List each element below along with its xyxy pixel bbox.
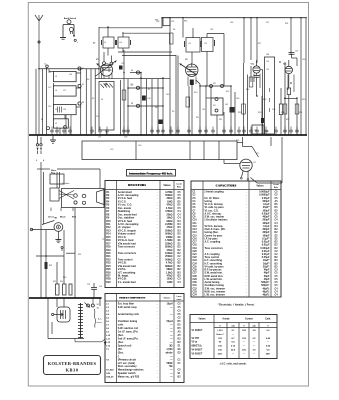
valve V3 6B8G detector/AVC: [244, 60, 265, 135]
IF transformer / volume control box: [265, 54, 283, 135]
svg-text:C10: C10: [193, 220, 198, 222]
svg-text:R21: R21: [106, 256, 111, 258]
svg-text:...: ...: [157, 263, 159, 265]
svg-text:S24-25: S24-25: [106, 376, 114, 379]
svg-text:...: ...: [157, 324, 159, 326]
svg-text:...: ...: [246, 282, 248, 284]
svg-text:...: ...: [157, 282, 159, 284]
capacitor C36 trimmer box: [163, 18, 174, 26]
svg-text:...: ...: [157, 377, 159, 379]
svg-text:...: ...: [157, 366, 159, 368]
svg-text:V3 (a: V3 (a: [192, 342, 198, 344]
svg-text:...: ...: [157, 243, 159, 245]
svg-text:C3: C3: [178, 279, 182, 281]
svg-text:...: ...: [246, 238, 248, 240]
svg-text:R2: R2: [106, 195, 110, 197]
svg-text:C3: C3: [275, 270, 279, 272]
svg-text:230‡: 230‡: [218, 353, 224, 355]
svg-text:E1: E1: [178, 345, 182, 347]
svg-text:...: ...: [246, 288, 248, 290]
svg-text:C4: C4: [275, 219, 279, 222]
wire aerial coil bus: [39, 69, 99, 79]
svg-text:R1: R1: [106, 192, 110, 194]
svg-text:...: ...: [157, 227, 159, 229]
capacitor C44 box: [252, 125, 264, 134]
svg-text:C8: C8: [193, 213, 197, 215]
svg-text:R6: R6: [106, 208, 110, 210]
svg-text:1MΩ: 1MΩ: [167, 281, 172, 284]
svg-text:...: ...: [246, 245, 248, 247]
svg-text:Varies†: Varies†: [216, 334, 224, 336]
svg-text:R25: R25: [106, 269, 111, 271]
svg-text:D2: D2: [275, 229, 279, 231]
svg-text:E3: E3: [275, 235, 279, 237]
svg-text:L5: L5: [106, 318, 109, 320]
svg-text:...: ...: [246, 192, 248, 194]
svg-text:B3: B3: [275, 263, 279, 265]
svg-text:B2: B2: [178, 269, 182, 271]
svg-text:C23: C23: [193, 260, 198, 262]
svg-text:R19: R19: [106, 250, 111, 252]
svg-text:L11: L11: [106, 338, 110, 340]
svg-text:RESISTORS: RESISTORS: [128, 184, 146, 187]
svg-text:...: ...: [246, 210, 248, 212]
svg-text:...: ...: [157, 314, 159, 316]
wire lower earth bus: [29, 297, 102, 299]
wire chassis earth bus: [29, 134, 307, 136]
svg-text:...: ...: [246, 235, 248, 237]
svg-text:...: ...: [157, 208, 159, 210]
model label KOLSTER-BRANDES KB30: [44, 356, 101, 375]
aerial & earth terminals: [36, 135, 42, 154]
svg-text:...: ...: [246, 195, 248, 197]
svg-text:C5: C5: [275, 285, 279, 287]
svg-text:...: ...: [157, 192, 159, 194]
svg-text:...: ...: [157, 247, 159, 249]
valve V2 7B7 IF amplifier: [176, 55, 200, 135]
svg-text:B2: B2: [178, 377, 182, 379]
wire drops from HT bus: [170, 18, 301, 135]
svg-text:L13: L13: [106, 345, 111, 347]
svg-text:...: ...: [246, 254, 248, 256]
IF transformer T-IF1 (L9/L10): [99, 27, 176, 69]
svg-text:...: ...: [157, 269, 159, 271]
output transformer T1 and speaker: [48, 298, 106, 346]
svg-text:C32: C32: [193, 288, 198, 290]
resistor labels R13 R17 R20 R23 R25: [172, 111, 302, 119]
svg-text:R15: R15: [106, 237, 111, 239]
svg-text:V4 6V6GT: V4 6V6GT: [192, 349, 203, 352]
table CAPACITORS: [191, 181, 281, 297]
svg-text:2.7: 2.7: [231, 330, 235, 332]
svg-text:A5: A5: [178, 334, 182, 337]
svg-text:6B8GT (b: 6B8GT (b: [192, 346, 203, 348]
svg-text:R7: R7: [106, 211, 110, 213]
svg-text:D4: D4: [178, 220, 182, 223]
svg-text:D2: D2: [178, 250, 182, 252]
svg-text:...: ...: [246, 260, 248, 262]
svg-text:...: ...: [157, 256, 159, 258]
svg-text:46pF‡: 46pF‡: [262, 294, 270, 297]
svg-text:C2: C2: [178, 256, 182, 258]
footnote AC volts: [220, 363, 247, 366]
svg-text:S23: S23: [106, 373, 111, 375]
svg-text:D5: D5: [275, 207, 279, 209]
ground symbol: [50, 135, 56, 143]
svg-text:...: ...: [246, 285, 248, 287]
svg-text:R12: R12: [106, 227, 111, 229]
table VALVES voltages: [190, 315, 277, 359]
svg-text:195: 195: [218, 338, 222, 340]
svg-text:C9: C9: [193, 217, 197, 219]
svg-text:...: ...: [157, 201, 159, 203]
svg-text:—: —: [243, 346, 246, 348]
svg-text:...: ...: [157, 205, 159, 207]
svg-text:C30: C30: [193, 282, 198, 284]
svg-text:R24: R24: [106, 265, 111, 268]
svg-text:R20: R20: [106, 253, 111, 255]
svg-text:...: ...: [157, 356, 159, 358]
svg-text:C31: C31: [193, 285, 198, 287]
svg-text:Mains sw., g'd R22: Mains sw., g'd R22: [118, 376, 140, 379]
svg-text:C24: C24: [193, 262, 198, 265]
svg-text:0.45: 0.45: [266, 337, 271, 340]
svg-text:C28: C28: [193, 276, 198, 278]
svg-text:Tone correctors: Tone correctors: [118, 252, 137, 255]
svg-text:D2: D2: [178, 342, 182, 344]
svg-text:B2: B2: [178, 266, 182, 268]
svg-text:3.4: 3.4: [252, 329, 256, 332]
svg-text:Refs: Refs: [274, 187, 279, 189]
svg-text:C26: C26: [193, 270, 198, 272]
svg-text:9.2: 9.2: [266, 330, 270, 332]
svg-text:...: ...: [157, 234, 159, 236]
svg-text:R9: R9: [106, 218, 110, 220]
svg-text:D2: D2: [178, 338, 182, 340]
svg-text:C4: C4: [275, 287, 279, 290]
svg-text:...: ...: [246, 223, 248, 225]
svg-text:C7: C7: [193, 210, 197, 212]
table OTHER COMPONENTS: [105, 294, 184, 383]
svg-text:Values: Values: [163, 185, 171, 187]
svg-text:...: ...: [157, 272, 159, 274]
svg-text:C16: C16: [193, 238, 198, 240]
svg-text:C22: C22: [193, 257, 198, 259]
wire right edge drops: [36, 18, 306, 135]
svg-text:...: ...: [157, 338, 159, 340]
svg-text:3.9: 3.9: [252, 350, 256, 352]
svg-text:C4: C4: [178, 210, 182, 213]
valve V1 6K8GT frequency changer: [95, 52, 170, 85]
svg-text:D3: D3: [178, 227, 182, 229]
svg-text:B3: B3: [275, 260, 279, 262]
gram terminals: [30, 228, 64, 298]
svg-text:...: ...: [157, 321, 159, 323]
svg-text:...: ...: [246, 270, 248, 272]
svg-text:0.45: 0.45: [266, 345, 271, 348]
svg-text:D3: D3: [178, 234, 182, 236]
svg-text:D5: D5: [178, 205, 182, 207]
svg-text:C13: C13: [193, 229, 198, 231]
svg-text:R5: R5: [106, 205, 110, 207]
svg-text:C5: C5: [275, 279, 279, 281]
svg-text:...: ...: [157, 218, 159, 220]
svg-text:...: ...: [157, 370, 159, 372]
svg-text:D2: D2: [275, 248, 279, 250]
svg-text:C1: C1: [178, 363, 182, 365]
dropper resistors and C23: [53, 230, 102, 298]
svg-text:C5: C5: [178, 370, 182, 372]
svg-text:R11: R11: [106, 224, 111, 226]
wires V1 anode circuit: [121, 50, 164, 135]
svg-text:E3: E3: [178, 237, 182, 239]
svg-text:E3: E3: [178, 349, 182, 351]
svg-text:C5: C5: [275, 213, 279, 215]
svg-text:R28: R28: [106, 279, 111, 281]
svg-text:} Aerial coupling: } Aerial coupling: [205, 191, 225, 194]
svg-text:—: —: [232, 334, 235, 336]
svg-text:...: ...: [246, 295, 248, 297]
svg-text:L7: L7: [106, 324, 109, 326]
svg-text:C15: C15: [193, 235, 198, 237]
svg-text:R4: R4: [106, 200, 110, 203]
svg-text:C11: C11: [193, 223, 198, 225]
svg-text:CAPACITORS: CAPACITORS: [216, 185, 237, 188]
svg-text:...: ...: [246, 257, 248, 259]
svg-text:Values: Values: [164, 298, 172, 300]
svg-text:...: ...: [157, 307, 159, 309]
svg-text:—: —: [243, 342, 246, 344]
svg-text:A5: A5: [275, 200, 279, 203]
svg-text:...: ...: [157, 304, 159, 306]
svg-text:C21: C21: [193, 254, 198, 256]
svg-text:...: ...: [246, 204, 248, 206]
svg-text:Refs: Refs: [177, 187, 182, 189]
svg-text:C5: C5: [178, 192, 182, 194]
svg-text:245*: 245*: [266, 352, 271, 355]
svg-text:L6: L6: [106, 321, 109, 323]
svg-text:D5: D5: [178, 328, 182, 330]
svg-text:...: ...: [157, 198, 159, 200]
svg-text:...: ...: [157, 211, 159, 213]
svg-text:D5: D5: [178, 321, 182, 323]
svg-text:S1-S22: S1-S22: [106, 370, 114, 372]
svg-text:...: ...: [157, 259, 159, 261]
svg-text:—: —: [253, 346, 256, 348]
svg-text:C2: C2: [193, 195, 197, 197]
svg-text:...: ...: [157, 230, 159, 232]
svg-text:A.C. coupling: A.C. coupling: [205, 241, 221, 244]
svg-text:Valves: Valves: [198, 319, 206, 321]
svg-text:S.W. aerial coup.: S.W. aerial coup.: [118, 306, 138, 309]
svg-text:...: ...: [157, 331, 159, 333]
svg-text:R23: R23: [106, 263, 111, 265]
svg-text:V1 6K8GT: V1 6K8GT: [192, 330, 203, 332]
svg-text:...: ...: [246, 273, 248, 275]
svg-text:{ 210: { 210: [217, 330, 223, 332]
svg-text:105: 105: [242, 330, 246, 332]
ext. speaker plug sub-circuit: [60, 17, 78, 44]
mains dropper and plug: [37, 162, 70, 298]
svg-text:—: —: [243, 353, 246, 355]
svg-text:C25: C25: [193, 266, 198, 268]
svg-text:R17: R17: [106, 243, 111, 245]
svg-text:C3: C3: [193, 198, 197, 200]
svg-text:L.W. osc. trimmer: L.W. osc. trimmer: [205, 294, 225, 297]
svg-text:...: ...: [246, 263, 248, 265]
svg-text:—: —: [253, 353, 256, 355]
svg-text:C6: C6: [193, 207, 197, 209]
svg-text:Screen: Screen: [245, 319, 253, 321]
svg-text:C4: C4: [275, 290, 279, 293]
svg-text:V2 7B7: V2 7B7: [192, 338, 200, 340]
svg-text:C19: C19: [193, 248, 198, 250]
svg-text:...: ...: [157, 311, 159, 313]
svg-text:230: 230: [242, 350, 246, 352]
svg-text:V.L. anode feed: V.L. anode feed: [118, 281, 136, 284]
svg-text:8.7: 8.7: [231, 338, 235, 340]
IF transformer T-IF2 (L11/L12): [185, 28, 225, 86]
svg-text:...: ...: [246, 232, 248, 234]
svg-text:9.4: 9.4: [266, 349, 270, 352]
svg-text:...: ...: [157, 276, 159, 278]
svg-text:D2: D2: [178, 247, 182, 249]
svg-text:C5: C5: [178, 307, 182, 309]
svg-text:D2: D2: [275, 245, 279, 247]
svg-text:L3: L3: [106, 311, 109, 313]
svg-text:C5: C5: [178, 314, 182, 316]
svg-text:C5: C5: [178, 304, 182, 306]
svg-text:Locat: Locat: [273, 183, 279, 186]
svg-text:...: ...: [157, 195, 159, 197]
svg-text:R18: R18: [106, 247, 111, 249]
svg-text:V5 6X5GT: V5 6X5GT: [192, 353, 203, 355]
svg-text:Anode: Anode: [222, 318, 230, 321]
svg-text:A5: A5: [178, 330, 182, 333]
svg-text:D5: D5: [178, 201, 182, 203]
svg-text:C5: C5: [275, 217, 279, 219]
svg-text:Tone correctors: Tone correctors: [205, 247, 224, 250]
svg-text:—: —: [170, 376, 173, 379]
svg-text:...: ...: [157, 240, 159, 242]
svg-text:Locat: Locat: [176, 183, 182, 186]
small resistor boxes on wires: [122, 33, 299, 114]
svg-text:...: ...: [246, 213, 248, 215]
svg-text:2.5: 2.5: [252, 338, 256, 340]
svg-text:tions: tions: [177, 298, 183, 301]
capacitors on earth bus: [50, 127, 299, 136]
svg-text:225: 225: [218, 350, 222, 352]
svg-text:...: ...: [246, 242, 248, 244]
mains switch S25 and pilot lamp: [42, 218, 63, 252]
svg-text:34.5: 34.5: [231, 349, 236, 352]
svg-text:—: —: [232, 353, 235, 355]
svg-text:Aerial tuning coils: Aerial tuning coils: [118, 313, 140, 316]
svg-text:C5: C5: [275, 192, 279, 194]
svg-text:C2: C2: [178, 259, 182, 261]
svg-text:L9: L9: [106, 331, 109, 333]
svg-text:D5: D5: [178, 198, 182, 200]
svg-text:...: ...: [157, 279, 159, 281]
svg-text:R22: R22: [106, 259, 111, 261]
svg-text:B3: B3: [178, 272, 182, 274]
svg-text:C29: C29: [193, 279, 198, 281]
svg-text:R27: R27: [106, 276, 111, 278]
svg-text:...: ...: [157, 328, 159, 330]
svg-text:D2: D2: [178, 253, 182, 255]
svg-text:90: 90: [219, 342, 222, 344]
svg-text:E3: E3: [275, 238, 279, 240]
svg-text:...: ...: [157, 250, 159, 252]
svg-text:mA: mA: [231, 325, 235, 328]
svg-text:C5: C5: [275, 273, 279, 275]
svg-text:C4: C4: [178, 213, 182, 216]
svg-text:...: ...: [157, 224, 159, 226]
svg-text:B2: B2: [275, 257, 279, 259]
svg-text:E3: E3: [178, 352, 182, 354]
svg-text:...: ...: [246, 226, 248, 228]
svg-text:...: ...: [157, 345, 159, 347]
tube pin stubs: [103, 68, 294, 93]
svg-text:...: ...: [246, 279, 248, 281]
svg-text:Loca: Loca: [177, 296, 183, 298]
svg-text:...: ...: [157, 237, 159, 239]
svg-text:B2: B2: [178, 263, 182, 265]
svg-text:R16: R16: [106, 240, 111, 242]
svg-text:C2: C2: [275, 251, 279, 253]
svg-text:C5: C5: [178, 311, 182, 313]
svg-text:L10: L10: [106, 335, 111, 337]
svg-text:C17: C17: [193, 242, 198, 244]
svg-text:...: ...: [157, 373, 159, 375]
IF frequency note box: [127, 170, 176, 177]
valve V5 6X5GT rectifier: [224, 137, 282, 183]
svg-text:...: ...: [246, 207, 248, 209]
svg-text:...: ...: [157, 352, 159, 354]
wires V2 grid/anode: [178, 52, 231, 136]
svg-text:—: —: [267, 342, 270, 344]
border frame: [28, 3, 308, 387]
svg-text:...: ...: [246, 220, 248, 222]
svg-text:D5: D5: [275, 204, 279, 206]
svg-text:‡ A.C. volts, each anode.: ‡ A.C. volts, each anode.: [220, 363, 247, 366]
svg-text:...: ...: [157, 318, 159, 320]
svg-text:D4: D4: [275, 225, 279, 228]
svg-text:...: ...: [246, 229, 248, 231]
svg-text:C5: C5: [275, 195, 279, 197]
antenna A1: [35, 15, 43, 134]
svg-text:...: ...: [246, 217, 248, 219]
svg-text:...: ...: [157, 214, 159, 216]
svg-text:...: ...: [246, 266, 248, 268]
svg-text:C5: C5: [193, 204, 197, 206]
valve V4 6V6GT output: [283, 60, 297, 135]
capacitor C52: [289, 51, 299, 67]
svg-text:C1: C1: [178, 359, 182, 361]
svg-text:...: ...: [246, 251, 248, 253]
svg-text:C1: C1: [193, 192, 197, 194]
svg-text:R26: R26: [106, 272, 111, 274]
svg-text:D5: D5: [275, 210, 279, 212]
svg-text:D3: D3: [178, 230, 182, 232]
svg-text:E3: E3: [178, 240, 182, 242]
svg-text:E2: E2: [178, 243, 182, 245]
pick-up jack P.U.: [211, 98, 235, 116]
svg-text:T2: T2: [106, 359, 109, 361]
wire top HT bus: [155, 18, 307, 28]
svg-text:...: ...: [157, 363, 159, 365]
svg-text:C34: C34: [193, 294, 198, 297]
